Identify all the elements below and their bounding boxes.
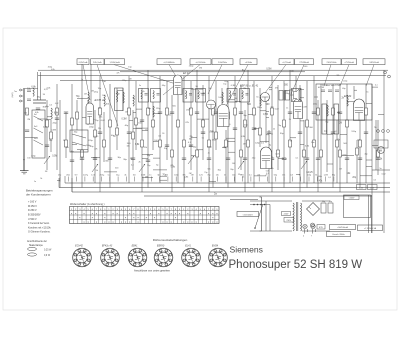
wire	[332, 84, 334, 188]
svg-text:EC 92: EC 92	[318, 87, 325, 89]
svg-text:0,3M: 0,3M	[122, 119, 127, 121]
svg-text:5n: 5n	[202, 138, 204, 140]
svg-text:15p: 15p	[337, 139, 340, 141]
svg-text:0,3: 0,3	[290, 175, 293, 177]
wire	[311, 142, 315, 144]
wire	[183, 76, 185, 188]
resistor R15	[128, 108, 131, 115]
wire	[290, 175, 293, 177]
svg-text:0,1: 0,1	[266, 173, 269, 175]
svg-text:100: 100	[154, 140, 157, 142]
svg-text:0,25: 0,25	[199, 175, 203, 177]
wire	[209, 181, 216, 183]
svg-text:2k: 2k	[208, 153, 210, 155]
wire	[337, 139, 340, 141]
wire	[96, 170, 99, 172]
wire	[23, 159, 24, 161]
capacitor C31	[282, 158, 286, 160]
svg-text:≈0,7/5mA: ≈0,7/5mA	[282, 61, 291, 64]
wire	[313, 76, 315, 183]
svg-text:6,8k: 6,8k	[184, 177, 189, 179]
svg-text:30p: 30p	[123, 159, 127, 161]
wire	[117, 177, 119, 182]
wire	[374, 126, 377, 129]
svg-text:2M: 2M	[84, 94, 87, 96]
wire	[383, 70, 385, 233]
svg-text:Anschlußwerte der: Anschlußwerte der	[27, 240, 47, 243]
wire	[133, 111, 136, 113]
wire	[138, 122, 142, 124]
wire	[271, 107, 274, 109]
wire	[191, 155, 197, 157]
node label 7,5/9V	[358, 225, 383, 231]
wire	[130, 158, 133, 160]
wire	[94, 149, 97, 151]
wire	[228, 124, 231, 126]
wire	[63, 140, 65, 142]
wire	[189, 108, 191, 110]
svg-text:100: 100	[253, 128, 256, 130]
tube V8 EB41 diode	[207, 100, 216, 109]
capacitor C35	[312, 112, 316, 114]
wire	[188, 142, 192, 144]
switch S1 band switch	[32, 110, 45, 158]
wire	[98, 107, 101, 109]
wire	[269, 87, 272, 89]
svg-text:70p: 70p	[147, 165, 151, 167]
tube socket EM34	[209, 244, 228, 266]
wire	[346, 84, 348, 183]
wire	[289, 89, 292, 91]
wire	[273, 128, 275, 130]
wire	[375, 85, 378, 87]
resistor R58	[377, 150, 380, 157]
resistor R25	[183, 140, 186, 147]
svg-text:5k: 5k	[96, 170, 99, 172]
svg-text:0,02: 0,02	[275, 108, 280, 110]
svg-text:2k: 2k	[285, 159, 288, 161]
wire	[208, 169, 211, 171]
resistor R7	[76, 112, 79, 119]
svg-text:≈0,55/1kHz: ≈0,55/1kHz	[195, 62, 205, 64]
wire	[342, 97, 345, 99]
svg-text:0,3M: 0,3M	[51, 129, 56, 131]
capacitor C27	[243, 158, 247, 160]
svg-text:0,5M: 0,5M	[52, 156, 57, 158]
wire	[210, 131, 214, 133]
wire	[117, 73, 120, 75]
wire	[76, 177, 78, 182]
wire	[285, 159, 288, 161]
wire	[221, 88, 223, 104]
wire	[266, 99, 269, 101]
wire	[214, 193, 217, 196]
capacitor C2	[36, 108, 40, 110]
capacitor C5	[64, 112, 68, 114]
svg-text:220V: 220V	[284, 214, 289, 216]
svg-text:M 250 V: M 250 V	[28, 205, 37, 208]
wire	[354, 89, 357, 91]
wire	[286, 108, 288, 110]
svg-text:230V: 230V	[286, 220, 291, 222]
wire	[105, 161, 109, 163]
node label Umsch	[327, 232, 351, 237]
wire	[133, 98, 136, 100]
wire	[369, 195, 372, 233]
wire	[250, 204, 270, 206]
wire	[268, 130, 270, 183]
wire	[99, 76, 101, 192]
wire	[196, 70, 198, 183]
svg-text:47k: 47k	[94, 149, 97, 151]
wire	[100, 175, 106, 177]
svg-text:25k: 25k	[190, 136, 193, 138]
svg-text:2k: 2k	[242, 176, 245, 178]
wire	[228, 151, 235, 153]
wire	[365, 84, 367, 183]
wire	[353, 86, 355, 99]
svg-text:120p: 120p	[94, 91, 98, 93]
wire	[300, 120, 304, 122]
wire	[380, 168, 382, 170]
wire	[75, 174, 78, 177]
wire	[300, 89, 304, 91]
wire	[284, 85, 289, 87]
svg-text:200p: 200p	[313, 104, 317, 106]
svg-text:≈50/100mA: ≈50/100mA	[337, 226, 348, 229]
wire	[266, 175, 268, 177]
svg-text:70p: 70p	[325, 122, 328, 124]
svg-text:10k: 10k	[347, 173, 352, 175]
svg-text:12k: 12k	[216, 175, 219, 177]
svg-text:8p: 8p	[269, 145, 271, 147]
wire	[283, 81, 285, 188]
wire	[150, 177, 152, 182]
svg-text:8p: 8p	[158, 175, 160, 177]
inductor L8	[222, 92, 223, 103]
node tap	[264, 204, 266, 206]
wire	[144, 195, 372, 197]
svg-text:1: 1	[87, 252, 88, 254]
svg-text:0,5M: 0,5M	[209, 132, 214, 134]
wire	[265, 101, 267, 143]
svg-text:0,85/2mA: 0,85/2mA	[79, 61, 88, 64]
wire	[142, 129, 148, 131]
resistor R6	[71, 118, 74, 125]
svg-text:15k: 15k	[282, 175, 285, 177]
node M2 measurement label 2/4k,2mA	[91, 59, 105, 65]
wire	[265, 65, 286, 93]
resistor R42	[277, 150, 280, 157]
resistor R37	[247, 140, 250, 147]
wire	[54, 112, 59, 114]
svg-text:EBF 80 u. EL 41: EBF 80 u. EL 41	[240, 85, 259, 88]
wire	[374, 179, 377, 181]
wire	[83, 175, 89, 177]
wire	[71, 151, 74, 153]
wire	[139, 162, 142, 164]
wire	[209, 132, 214, 134]
node M1 measurement label 0,85/2mA	[77, 59, 89, 65]
wire	[343, 80, 347, 82]
svg-text:10n: 10n	[271, 107, 274, 109]
wire	[173, 106, 177, 108]
svg-text:120p: 120p	[88, 140, 94, 142]
wire	[266, 111, 269, 113]
wire	[47, 119, 51, 121]
wire	[51, 69, 55, 71]
svg-text:20p: 20p	[252, 157, 256, 159]
svg-text:0,5: 0,5	[49, 105, 52, 107]
svg-text:1M: 1M	[129, 79, 132, 81]
wire	[325, 177, 327, 182]
wire	[94, 91, 98, 93]
wire	[31, 156, 36, 158]
svg-text:2k: 2k	[63, 140, 65, 142]
svg-text:20p: 20p	[193, 147, 196, 149]
svg-text:0,1: 0,1	[158, 136, 162, 138]
capacitor C26	[239, 112, 243, 114]
wire	[45, 106, 49, 108]
svg-text:0,5: 0,5	[261, 143, 265, 145]
svg-text:1: 1	[142, 252, 143, 254]
wire	[275, 87, 278, 89]
wire	[72, 191, 390, 193]
inductor L9	[260, 95, 261, 106]
wire	[296, 158, 299, 160]
wire	[158, 175, 160, 177]
resistor R5	[65, 140, 68, 147]
svg-text:2/4k/7kHz: 2/4k/7kHz	[218, 62, 227, 64]
wire	[308, 172, 313, 174]
svg-text:27V/88mA: 27V/88mA	[299, 61, 309, 64]
resistor R19	[147, 108, 150, 115]
svg-text:20k: 20k	[257, 175, 260, 177]
resistor R33	[227, 112, 230, 119]
wire	[303, 120, 305, 183]
node M5 measurement label ≈0,55/1kHz	[190, 59, 211, 65]
wire	[103, 112, 105, 162]
wire	[59, 187, 390, 189]
wire	[228, 99, 235, 101]
wire	[145, 176, 148, 178]
wire	[43, 127, 48, 129]
svg-text:0,25: 0,25	[308, 172, 313, 174]
svg-text:1M: 1M	[125, 112, 128, 114]
capacitor C33	[298, 132, 302, 134]
svg-text:0,1: 0,1	[131, 165, 134, 167]
wire	[50, 120, 52, 152]
wire	[382, 174, 386, 176]
wire	[259, 88, 261, 147]
wire	[374, 140, 388, 148]
wire	[116, 88, 118, 150]
wire	[59, 177, 61, 182]
svg-text:10k: 10k	[98, 107, 101, 109]
svg-text:200p: 200p	[257, 107, 263, 109]
wire	[28, 214, 41, 217]
svg-text:5n: 5n	[139, 85, 141, 87]
wire	[148, 108, 151, 110]
svg-text:U 500 V: U 500 V	[28, 218, 37, 221]
svg-text:Siemens: Siemens	[230, 245, 263, 255]
wire	[97, 65, 118, 126]
wire	[278, 158, 284, 160]
transformer T2 output	[279, 90, 290, 101]
wire	[55, 103, 59, 105]
wire	[208, 76, 210, 192]
wire	[208, 153, 210, 155]
wire	[26, 192, 51, 196]
wire	[313, 104, 317, 106]
wire	[225, 130, 227, 183]
wire	[365, 154, 368, 156]
wire	[347, 101, 354, 103]
svg-text:5: 5	[212, 263, 213, 265]
svg-text:10k: 10k	[127, 145, 130, 147]
svg-text:≈245V: ≈245V	[349, 198, 355, 200]
wire	[208, 177, 210, 182]
svg-text:110p: 110p	[307, 175, 311, 177]
svg-text:EBF80: EBF80	[157, 244, 165, 247]
node antenna terminal	[20, 89, 24, 91]
wire	[380, 159, 383, 161]
wire	[122, 88, 124, 111]
wire	[224, 81, 228, 83]
wire	[359, 120, 361, 188]
node label 230V	[284, 218, 294, 223]
wire	[134, 177, 136, 182]
inductor L20	[33, 88, 34, 96]
wire	[38, 75, 386, 77]
wire	[76, 96, 81, 98]
wire	[218, 97, 221, 99]
connector TA phono	[378, 147, 385, 154]
svg-text:Phonosuper 52 SH 819 W: Phonosuper 52 SH 819 W	[229, 259, 363, 271]
wire	[153, 141, 160, 143]
node M4 measurement label ≈0,5/468kHz	[157, 59, 181, 65]
wire	[153, 112, 160, 114]
wire	[183, 175, 186, 177]
wire	[90, 146, 94, 148]
wire	[285, 90, 288, 92]
node label 245V	[344, 196, 359, 200]
wire	[27, 240, 47, 243]
svg-text:≈4/1kHz: ≈4/1kHz	[245, 62, 252, 64]
svg-text:70p: 70p	[76, 96, 81, 98]
svg-text:1n: 1n	[34, 181, 36, 183]
wire	[160, 179, 167, 181]
wire	[235, 100, 241, 102]
tube socket EBF80	[154, 244, 173, 266]
wire	[189, 173, 192, 175]
wire	[327, 163, 333, 165]
svg-text:500: 500	[266, 104, 270, 106]
wire	[28, 205, 37, 208]
svg-text:4k: 4k	[124, 175, 126, 177]
wire	[94, 110, 96, 183]
wire	[233, 177, 235, 182]
wire	[28, 201, 37, 204]
resistor R53	[339, 150, 342, 157]
resistor R34	[234, 108, 237, 115]
wire	[299, 175, 301, 177]
capacitor C3	[45, 145, 49, 147]
capacitor C61 electrolytic	[334, 104, 339, 134]
node M12 measurement label 240V/2mA	[363, 59, 385, 65]
svg-text:300: 300	[105, 161, 109, 163]
svg-text:2M: 2M	[189, 173, 192, 175]
wire	[225, 177, 227, 182]
wire	[302, 201, 330, 231]
wire	[91, 91, 94, 93]
wire	[266, 116, 269, 118]
svg-text:100: 100	[138, 122, 142, 124]
wire	[265, 154, 271, 156]
svg-text:EF42u.43: EF42u.43	[102, 244, 113, 247]
resistor R21	[159, 140, 162, 147]
capacitor C60 electrolytic	[322, 104, 327, 134]
wire	[142, 177, 153, 179]
svg-text:≈215/254V: ≈215/254V	[243, 213, 254, 216]
wire	[300, 177, 302, 182]
wire	[242, 177, 244, 182]
wire	[270, 157, 273, 159]
wire	[296, 100, 300, 102]
wire	[258, 177, 260, 182]
svg-text:50µ: 50µ	[116, 175, 120, 177]
wire	[274, 175, 277, 177]
svg-text:TA: TA	[374, 126, 377, 129]
wire	[243, 144, 246, 146]
tube V5 EL41 output	[261, 147, 272, 169]
rectifier GR1 bridge	[307, 203, 320, 216]
wire	[296, 101, 300, 103]
wire	[347, 173, 352, 175]
svg-text:40p: 40p	[162, 85, 166, 87]
wire	[191, 175, 194, 177]
wire	[43, 107, 47, 109]
wire	[366, 159, 372, 161]
wire	[66, 147, 69, 149]
svg-text:200p: 200p	[189, 65, 194, 67]
tube socket EB41	[128, 244, 147, 266]
lamp LP2 dial lamp	[311, 224, 315, 228]
wire	[159, 76, 161, 183]
wire	[216, 175, 219, 177]
svg-text:EF 42: EF 42	[183, 72, 190, 75]
wire	[289, 70, 291, 183]
resistor R48	[313, 140, 316, 147]
capacitor C17	[170, 112, 174, 114]
svg-text:FeI: FeI	[34, 114, 37, 116]
wire	[252, 157, 256, 159]
wire	[372, 144, 378, 146]
svg-text:2n: 2n	[266, 175, 268, 177]
inductor L4	[104, 95, 105, 106]
resistor R38	[253, 108, 256, 115]
resistor R14	[116, 128, 119, 135]
tube V2 EF42 IF amp	[174, 72, 191, 95]
wire	[240, 85, 242, 170]
wire	[77, 149, 88, 151]
node M8 measurement label ≈0,7/5mA	[279, 59, 294, 65]
wire	[135, 81, 137, 150]
capacitor C25	[233, 128, 237, 130]
svg-text:1,5/8k,9mA: 1,5/8k,9mA	[109, 61, 120, 64]
capacitor C36	[316, 158, 320, 160]
capacitor C28	[252, 128, 256, 130]
